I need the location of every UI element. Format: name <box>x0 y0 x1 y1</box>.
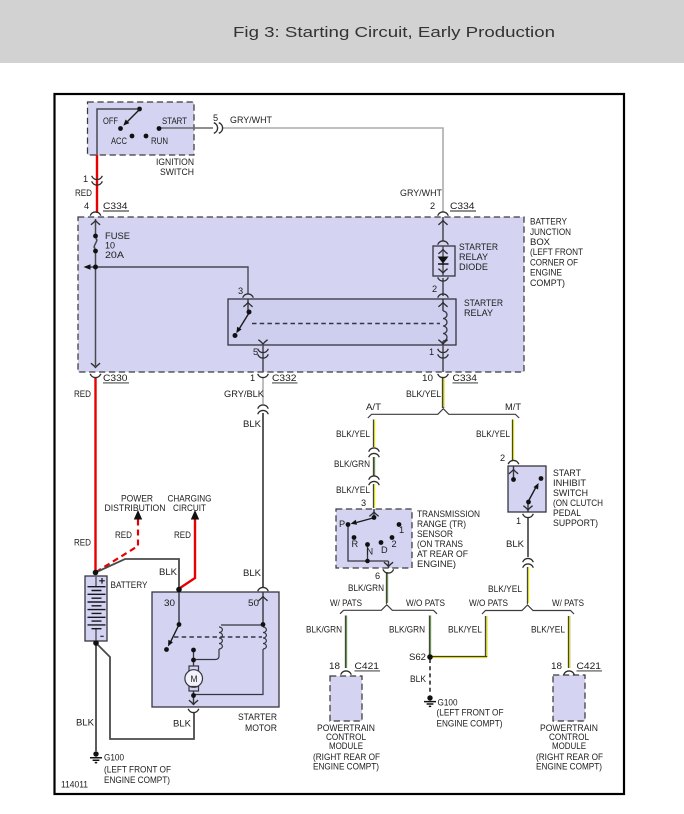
TR sensor P to output <box>348 526 389 561</box>
svg-text:C421: C421 <box>577 661 602 671</box>
arrow out start inhibit <box>523 506 532 510</box>
connector arc above diode <box>438 241 449 245</box>
TR contact R <box>352 535 357 540</box>
starter relay diode U2 box <box>433 246 455 276</box>
svg-text:BLK/YEL: BLK/YEL <box>448 625 482 635</box>
start inhibit switch box <box>508 466 546 512</box>
svg-text:M: M <box>191 674 198 684</box>
TR sensor lever P <box>357 518 374 523</box>
wire GRY/BLK below C332 <box>262 377 264 404</box>
wire relay pin3 internal <box>247 299 249 312</box>
svg-text:18: 18 <box>329 661 340 671</box>
connector arc relay pin 3 <box>243 294 254 298</box>
connector arcs relay pin 5 <box>258 349 269 353</box>
start inhibit entry wire <box>513 466 515 479</box>
svg-text:(RIGHT REAR OF: (RIGHT REAR OF <box>313 752 380 762</box>
wire starter 30 internal <box>178 589 180 624</box>
starter lever arrowhead <box>168 640 173 647</box>
svg-text:P: P <box>339 519 345 529</box>
start inhibit pivot <box>526 500 531 505</box>
svg-text:(ON TRANS: (ON TRANS <box>417 539 463 549</box>
wire BLK/YEL to PCM right <box>568 616 569 668</box>
svg-text:SENSOR: SENSOR <box>417 529 453 539</box>
svg-text:STARTER: STARTER <box>238 712 277 722</box>
transmission range sensor box <box>336 509 412 568</box>
svg-text:MOTOR: MOTOR <box>245 723 277 733</box>
svg-text:TRANSMISSION: TRANSMISSION <box>417 509 480 519</box>
TR sensor N stem <box>367 546 369 561</box>
svg-text:(LEFT FRONT: (LEFT FRONT <box>530 247 583 257</box>
svg-text:BLK/GRN: BLK/GRN <box>306 625 342 635</box>
starter motor feed wire <box>193 660 195 666</box>
arrow into relay pin 3 <box>243 303 252 307</box>
connector C334-4 arc <box>90 212 101 216</box>
starter solenoid contact bottom <box>164 647 169 652</box>
svg-text:CIRCUIT: CIRCUIT <box>173 503 206 513</box>
connector arc start inhibit pin 2 <box>508 460 519 464</box>
connector C334-2 arc <box>438 212 449 216</box>
svg-text:GRY/BLK: GRY/BLK <box>224 389 265 399</box>
starter relay K1 box <box>228 299 456 345</box>
battery junction box <box>78 217 524 372</box>
connector arc relay pin 2 <box>438 294 449 298</box>
svg-text:6: 6 <box>375 571 380 581</box>
ignition switch SW1 box <box>88 102 195 155</box>
arrow charging circuit <box>191 510 199 520</box>
svg-text:IGNITION: IGNITION <box>156 157 194 167</box>
wire BLK/GRN to PCM left <box>344 616 346 669</box>
connector arc below diode <box>438 277 449 281</box>
wire BLK/YEL A/T upper <box>372 420 374 509</box>
battery plates <box>88 587 106 629</box>
svg-text:W/O PATS: W/O PATS <box>469 598 508 608</box>
start inhibit exit wire <box>527 502 529 512</box>
TR contact D <box>379 540 384 545</box>
relay contact lower <box>233 333 238 338</box>
connector C332 arc <box>258 374 269 378</box>
svg-text:W/ PATS: W/ PATS <box>552 598 584 608</box>
svg-text:BLK: BLK <box>243 419 262 429</box>
svg-text:3: 3 <box>238 286 243 296</box>
wire START contact to box edge <box>159 127 213 129</box>
svg-text:RED: RED <box>115 530 132 540</box>
starter solenoid lever <box>170 626 178 643</box>
svg-text:1: 1 <box>399 525 404 535</box>
svg-text:MODULE: MODULE <box>329 741 363 751</box>
svg-text:JUNCTION: JUNCTION <box>530 227 571 237</box>
arrow to other circuits left <box>84 264 91 269</box>
svg-text:BLK/GRN: BLK/GRN <box>334 459 370 469</box>
brace split A/T M/T <box>368 409 519 418</box>
wire RED C330 to battery <box>94 377 96 571</box>
battery internal stub <box>95 577 97 640</box>
svg-text:114011: 114011 <box>61 780 88 790</box>
svg-text:BLK/GRN: BLK/GRN <box>389 625 425 635</box>
connector arcs relay pin 1 <box>438 349 449 353</box>
wire BLK below start inhibit <box>527 517 529 557</box>
svg-text:ENGINE): ENGINE) <box>417 559 456 569</box>
wire BLK/GRN to S62 <box>428 616 430 657</box>
TR contact 1 <box>397 522 402 527</box>
relay dashed actuator line <box>252 323 440 325</box>
svg-text:BLK/YEL: BLK/YEL <box>336 429 370 439</box>
wire BLK/GRN TR to brace <box>385 572 387 604</box>
wire inside diode <box>442 246 444 276</box>
starter motor bottom link to coil2 <box>194 649 264 695</box>
start inhibit contact fixed <box>511 477 516 482</box>
svg-text:RED: RED <box>174 530 191 540</box>
svg-text:1: 1 <box>250 373 255 383</box>
connector C334-10 arc <box>438 374 449 378</box>
TR contact N <box>365 542 370 547</box>
start inhibit contact top <box>539 476 544 481</box>
svg-text:GRY/WHT: GRY/WHT <box>400 188 442 198</box>
inline connector GRY/BLK to BLK <box>258 405 269 409</box>
wire BLK to starter 50 <box>262 413 264 588</box>
svg-text:BLK: BLK <box>159 567 178 577</box>
arrow into start inhibit <box>509 470 518 474</box>
wire RED ignition switch to junction box <box>96 155 98 213</box>
starter hold-in coil <box>263 627 266 649</box>
start inhibit lever arrowhead <box>534 483 539 490</box>
svg-text:C334: C334 <box>103 201 128 211</box>
svg-text:BLK: BLK <box>243 568 262 578</box>
svg-text:DISTRIBUTION: DISTRIBUTION <box>105 503 166 513</box>
arrow into diode <box>438 250 447 254</box>
wire BLK/YEL M/T column <box>511 420 513 461</box>
starter fixed contact upper <box>191 648 196 653</box>
diode symbol <box>438 257 449 264</box>
wire BLK/YEL W/O PATS right branch <box>485 616 486 657</box>
svg-text:2: 2 <box>430 201 435 211</box>
diagram border frame <box>55 94 625 794</box>
svg-text:START: START <box>162 116 187 126</box>
starter solenoid contact top <box>177 622 182 627</box>
battery box <box>85 576 107 641</box>
svg-text:STARTER: STARTER <box>459 242 498 252</box>
svg-text:BLK/GRN: BLK/GRN <box>348 583 384 593</box>
arrow into starter 50 <box>258 597 267 601</box>
connector 5 inline arcs <box>214 123 218 134</box>
svg-text:STARTER: STARTER <box>464 298 503 308</box>
wire fuse to box bottom <box>95 253 97 366</box>
TR lever arrowhead P <box>351 520 358 525</box>
connector 1 inline arcs below ignition switch <box>92 176 103 180</box>
inline connector BLK to BLK/YEL right <box>523 558 534 562</box>
TR junction node <box>365 559 370 564</box>
svg-text:RANGE (TR): RANGE (TR) <box>417 519 466 529</box>
svg-text:1: 1 <box>516 516 521 526</box>
svg-text:OFF: OFF <box>103 116 118 126</box>
wire diode to relay pin 2 <box>442 278 444 296</box>
connector arc starter pin 50 <box>258 587 269 591</box>
wire relay pin5 to C332 <box>262 345 264 372</box>
svg-text:C332: C332 <box>272 373 297 383</box>
ground G100 middle <box>427 695 432 700</box>
battery minus sign <box>100 635 103 637</box>
wire ignition switch internal L <box>97 109 137 155</box>
svg-text:C421: C421 <box>355 661 380 671</box>
wire starter ground to battery negative <box>96 643 194 739</box>
junction node fuse output <box>93 265 98 270</box>
svg-text:5: 5 <box>213 113 218 123</box>
TR contact 2 <box>390 535 395 540</box>
svg-text:C334: C334 <box>453 373 478 383</box>
svg-text:1: 1 <box>83 174 88 184</box>
motor M1 body <box>185 670 203 688</box>
starter pull-in coil <box>219 627 222 649</box>
svg-text:M/T: M/T <box>505 402 521 412</box>
svg-text:ENGINE COMPT): ENGINE COMPT) <box>313 762 379 772</box>
arrow into TR sensor <box>369 512 378 516</box>
svg-text:ENGINE COMPT): ENGINE COMPT) <box>536 762 602 772</box>
svg-text:MODULE: MODULE <box>552 741 586 751</box>
arrow into junction box top right <box>438 221 447 225</box>
connector C330 arc <box>90 374 101 378</box>
svg-text:G100: G100 <box>438 698 458 708</box>
relay switch lever <box>239 313 250 330</box>
svg-text:3: 3 <box>361 498 366 508</box>
starter 30 node <box>176 587 182 593</box>
wire BLK battery to starter 30 <box>96 559 180 589</box>
svg-text:2: 2 <box>432 284 437 294</box>
svg-text:G100: G100 <box>104 753 124 763</box>
svg-text:BLK/YEL: BLK/YEL <box>406 389 441 399</box>
wire fuse feed inside junction box <box>95 219 97 234</box>
contact RUN <box>144 134 149 139</box>
motor M1 brush bottom <box>189 687 199 692</box>
ignition switch pivot contact <box>137 107 142 112</box>
svg-text:W/ PATS: W/ PATS <box>330 598 362 608</box>
contact OFF <box>118 126 123 131</box>
arrow out starter motor <box>189 700 198 704</box>
starter motor to ground internal <box>193 691 195 706</box>
svg-text:RELAY: RELAY <box>464 308 493 318</box>
svg-text:CORNER OF: CORNER OF <box>530 257 578 267</box>
svg-text:START: START <box>553 468 581 478</box>
svg-text:(RIGHT REAR OF: (RIGHT REAR OF <box>536 752 603 762</box>
svg-text:BLK: BLK <box>410 674 427 684</box>
connector label underlines <box>103 211 602 671</box>
starter contact stub <box>193 650 195 660</box>
svg-text:BLK/YEL: BLK/YEL <box>531 625 565 635</box>
svg-text:BLK/YEL: BLK/YEL <box>488 584 522 594</box>
brace split W/PATS W/O PATS left <box>340 605 437 614</box>
TR sensor exit wire <box>388 561 390 568</box>
svg-text:(LEFT FRONT OF: (LEFT FRONT OF <box>437 708 504 718</box>
inline connector A/T lower <box>369 476 380 480</box>
svg-text:BLK: BLK <box>76 718 95 728</box>
svg-text:INHIBIT: INHIBIT <box>553 478 586 488</box>
svg-text:RED: RED <box>74 389 91 399</box>
start inhibit lever <box>529 487 537 501</box>
wire BLK dashed S62 to G100 <box>429 659 431 695</box>
arrow into relay pin 2 <box>438 303 447 307</box>
svg-text:PEDAL: PEDAL <box>553 508 581 518</box>
contact START <box>157 126 162 131</box>
starter dashed actuator line <box>174 636 262 638</box>
wire RED charging circuit <box>180 520 195 589</box>
node S62 <box>427 654 433 660</box>
svg-text:50: 50 <box>248 598 259 608</box>
wire starter 50 internal <box>262 592 264 624</box>
arrow into junction box left <box>91 221 100 225</box>
svg-text:POWER: POWER <box>121 494 153 504</box>
motor output node <box>191 693 196 698</box>
arrow out junction box bottom left <box>91 363 100 367</box>
wire diode top feed <box>442 217 444 241</box>
arrow out relay pin 1 <box>438 340 447 344</box>
svg-text:GRY/WHT: GRY/WHT <box>230 115 272 125</box>
starter coil1 bottom link <box>194 649 219 660</box>
fuse F10 symbol <box>93 234 98 239</box>
svg-text:(LEFT FRONT OF: (LEFT FRONT OF <box>104 764 171 774</box>
arrow out relay pin 5 <box>258 340 267 344</box>
connector C421 arc right <box>564 671 575 675</box>
svg-text:20A: 20A <box>105 250 125 260</box>
svg-text:C330: C330 <box>103 373 128 383</box>
svg-text:ENGINE: ENGINE <box>530 268 562 278</box>
wire battery negative to G100 <box>95 643 97 751</box>
relay lever arrowhead <box>236 327 241 334</box>
svg-text:2: 2 <box>500 453 505 463</box>
arrow power distribution <box>134 510 142 520</box>
svg-text:BOX: BOX <box>530 237 550 247</box>
svg-text:R: R <box>352 539 359 549</box>
svg-text:BLK: BLK <box>173 719 192 729</box>
svg-text:A/T: A/T <box>366 402 381 412</box>
wire relay pin2 internal to coil <box>442 299 444 311</box>
wire fuse junction to relay pin 3 <box>96 267 249 294</box>
ground G100 left <box>93 751 98 756</box>
arrow out diode bottom <box>438 269 447 273</box>
svg-text:5: 5 <box>253 347 258 357</box>
svg-text:CHARGING: CHARGING <box>168 494 212 504</box>
relay coil winding <box>443 311 447 341</box>
contact ACC <box>130 134 135 139</box>
svg-text:SWITCH: SWITCH <box>160 167 194 177</box>
svg-text:2: 2 <box>392 539 397 549</box>
powertrain control module box right <box>553 675 585 721</box>
svg-text:BLK/YEL: BLK/YEL <box>476 429 510 439</box>
svg-text:BLK: BLK <box>506 539 525 549</box>
connector arc starter ground pin <box>188 709 199 713</box>
starter motor box <box>152 592 279 707</box>
svg-text:Fig 3: Starting Circuit, Early: Fig 3: Starting Circuit, Early Productio… <box>233 24 555 41</box>
svg-text:N: N <box>367 547 374 557</box>
svg-text:18: 18 <box>551 661 562 671</box>
wire BLK/GRN A/T middle <box>372 457 374 476</box>
wire RED dashed power distribution <box>96 520 138 573</box>
wire GRY/WHT ignition to junction box <box>222 128 443 212</box>
svg-text:COMPT): COMPT) <box>530 278 565 288</box>
wire junction to left arrow <box>88 266 96 268</box>
svg-text:ACC: ACC <box>111 136 127 146</box>
arrow out TR sensor <box>384 562 393 566</box>
battery negative node <box>93 640 99 646</box>
svg-text:1: 1 <box>429 347 434 357</box>
wire BLK/YEL to brace right <box>526 567 528 604</box>
svg-text:AT REAR OF: AT REAR OF <box>417 549 468 559</box>
svg-text:S62: S62 <box>409 652 426 662</box>
brace split W/O PATS W/PATS right <box>482 605 574 614</box>
wire relay pin1 to C334-10 <box>442 345 444 372</box>
connector arc TR pin 6 <box>383 569 394 573</box>
svg-text:ENGINE COMPT): ENGINE COMPT) <box>437 718 503 728</box>
svg-text:SWITCH: SWITCH <box>553 488 588 498</box>
motor M1 brush top <box>189 666 199 671</box>
svg-text:(ON CLUTCH: (ON CLUTCH <box>553 498 603 508</box>
svg-text:RED: RED <box>74 538 91 548</box>
powertrain control module box left <box>330 676 362 721</box>
starter fixed contact lower <box>191 658 196 663</box>
connector arc start inhibit pin 1 <box>523 514 534 518</box>
svg-text:C334: C334 <box>450 201 475 211</box>
TR sensor entry wire <box>373 509 375 517</box>
starter coil top link <box>221 624 262 626</box>
svg-text:D: D <box>381 545 388 555</box>
svg-text:DIODE: DIODE <box>459 262 488 272</box>
svg-text:ENGINE COMPT): ENGINE COMPT) <box>104 775 170 785</box>
svg-text:30: 30 <box>164 598 175 608</box>
connector C421 arc left <box>341 671 352 675</box>
wire BLK/YEL below C334-10 <box>442 377 443 408</box>
wire relay coil to pin1 <box>442 341 444 345</box>
svg-text:SUPPORT): SUPPORT) <box>553 518 598 528</box>
battery plus sign <box>99 578 105 584</box>
wire S62 to W/O PATS right horizontal <box>431 655 487 657</box>
svg-text:BATTERY: BATTERY <box>530 217 567 227</box>
svg-text:4: 4 <box>84 201 89 211</box>
relay contact upper <box>247 310 252 315</box>
svg-text:RUN: RUN <box>151 136 168 146</box>
svg-text:RELAY: RELAY <box>459 252 488 262</box>
svg-text:RED: RED <box>75 188 92 198</box>
svg-text:W/O PATS: W/O PATS <box>406 598 445 608</box>
TR contact P <box>346 522 351 527</box>
svg-text:10: 10 <box>105 241 115 251</box>
svg-text:FUSE: FUSE <box>105 231 130 241</box>
battery positive node <box>93 570 99 576</box>
header band <box>0 0 684 63</box>
svg-text:BLK/YEL: BLK/YEL <box>336 485 370 495</box>
TR contact common <box>372 515 377 520</box>
svg-text:10: 10 <box>422 373 433 383</box>
svg-text:BATTERY: BATTERY <box>111 580 148 590</box>
ignition switch lever <box>128 110 140 122</box>
inline connector A/T upper <box>369 448 380 452</box>
starter 50 node <box>261 622 266 627</box>
